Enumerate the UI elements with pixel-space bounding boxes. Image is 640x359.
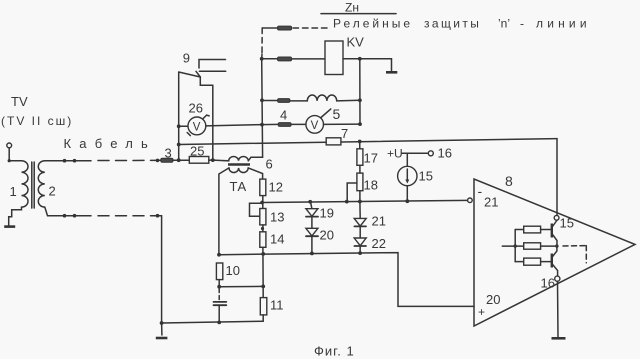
svg-text:7: 7	[341, 126, 348, 141]
svg-text:26: 26	[189, 101, 203, 116]
svg-text:19: 19	[320, 206, 334, 221]
svg-text:’n’: ’n’	[498, 17, 510, 31]
svg-text:TV: TV	[11, 94, 28, 109]
svg-text:9: 9	[183, 51, 190, 66]
svg-text:22: 22	[372, 236, 386, 251]
svg-text:5: 5	[333, 106, 341, 122]
svg-text:16: 16	[438, 146, 452, 161]
svg-text:KV: KV	[347, 35, 365, 50]
svg-text:ТА: ТА	[230, 179, 247, 194]
svg-text:2: 2	[49, 184, 56, 199]
svg-text:13: 13	[270, 210, 284, 225]
svg-text:21: 21	[484, 195, 498, 210]
svg-text:Фиг. 1: Фиг. 1	[314, 344, 355, 359]
svg-text:12: 12	[269, 180, 283, 195]
svg-text:15: 15	[560, 216, 574, 231]
svg-text:3: 3	[165, 146, 172, 161]
svg-text:(TV II сш): (TV II сш)	[1, 114, 73, 128]
svg-text:1: 1	[10, 184, 17, 199]
svg-text:6: 6	[266, 157, 273, 172]
svg-text:Релейные: Релейные	[333, 17, 413, 31]
svg-text:-: -	[478, 183, 483, 199]
svg-text:защиты: защиты	[424, 17, 481, 31]
svg-text:8: 8	[505, 173, 513, 189]
svg-text:20: 20	[320, 228, 334, 243]
svg-text:18: 18	[364, 178, 378, 193]
svg-text:14: 14	[270, 232, 284, 247]
svg-text:20: 20	[486, 292, 500, 307]
svg-text:4: 4	[280, 108, 287, 123]
svg-text:Кабель: Кабель	[64, 136, 156, 151]
svg-text:15: 15	[419, 169, 433, 184]
svg-text:16: 16	[541, 276, 555, 291]
svg-text:21: 21	[372, 214, 386, 229]
svg-text:10: 10	[226, 263, 240, 278]
svg-text:+U: +U	[387, 147, 403, 161]
svg-text:V: V	[193, 121, 201, 133]
svg-text:17: 17	[364, 151, 378, 166]
svg-text:V: V	[311, 120, 319, 132]
svg-text:11: 11	[270, 298, 284, 313]
svg-text:+: +	[478, 305, 485, 319]
svg-text:Zн: Zн	[345, 1, 359, 15]
svg-text:-: -	[520, 17, 524, 31]
svg-text:линии: линии	[536, 17, 591, 31]
svg-text:25: 25	[190, 144, 204, 159]
